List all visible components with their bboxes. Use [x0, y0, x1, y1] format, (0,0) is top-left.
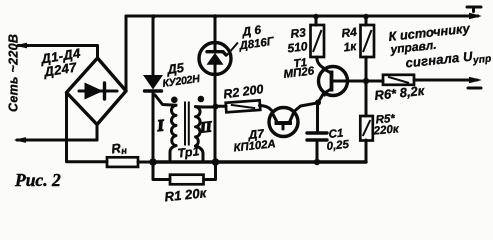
diode D6 circle: [199, 43, 231, 75]
capacitor C1 top lead: [316, 103, 319, 131]
node junction dot R2: [213, 104, 219, 110]
svg-text:КП102А: КП102А: [233, 138, 276, 154]
wire zener branch down to rail: [214, 64, 217, 162]
resistor R6: [383, 75, 414, 85]
node rail T dot: [151, 14, 155, 18]
svg-text:Рис. 2: Рис. 2: [14, 170, 61, 190]
wire R1 loop: [153, 162, 216, 180]
wire winding I bottom lead: [170, 146, 176, 161]
transistor D7 channel bar: [275, 121, 293, 125]
transformer Tr1 winding I: [171, 105, 176, 145]
node rail T dot 2: [213, 14, 217, 18]
node terminal bar bottom right: [468, 87, 481, 90]
diode D6 lead inside top: [214, 43, 217, 52]
node polarity dot winding I: [171, 97, 178, 104]
wire bridge bottom stub: [96, 125, 99, 141]
wire mains top: [18, 46, 98, 59]
wire T1 base lead: [334, 80, 363, 83]
node junction dot emitter: [315, 100, 321, 106]
resistor R3: [311, 25, 325, 57]
wire winding II top lead: [196, 105, 216, 108]
node junction dot C1 rail: [314, 159, 320, 165]
resistor R4: [361, 25, 375, 57]
wire R5 top lead: [365, 84, 368, 116]
resistor Rn: [107, 157, 138, 167]
diode inside bridge: [79, 90, 117, 93]
node mains top arrow: [15, 43, 28, 49]
resistor R5: [360, 116, 373, 141]
wire emitter to junction: [318, 94, 324, 103]
svg-text:R6* 8,2к: R6* 8,2к: [374, 83, 427, 103]
wire bottom rail: [153, 160, 366, 163]
node junction dot A: [149, 158, 157, 166]
svg-text:R4: R4: [341, 25, 358, 41]
wire R6 to output: [414, 79, 477, 82]
transistor T1 base bar: [330, 71, 334, 92]
node terminal bar top right: [467, 7, 481, 12]
svg-text:Тр1: Тр1: [177, 144, 200, 160]
wire Rn to node A: [138, 161, 153, 164]
wire thyristor gate to winding I: [155, 95, 176, 105]
wire R3 to collector: [317, 57, 324, 68]
wire R5 bottom corner: [365, 140, 368, 162]
svg-text:I: I: [156, 117, 166, 135]
svg-text:0,25: 0,25: [326, 139, 350, 153]
node polarity dot winding II: [198, 96, 205, 103]
transistor T1 emitter arrow: [322, 91, 329, 97]
svg-text:Rн: Rн: [110, 139, 128, 158]
svg-text:R1 20к: R1 20к: [164, 185, 209, 204]
svg-text:1к: 1к: [343, 39, 358, 55]
diode bridge D1-D4 diamond: [67, 58, 127, 125]
node mains bottom arrow: [14, 137, 27, 143]
node terminal arrow bottom right: [469, 77, 482, 83]
wire R2 right lead to FET: [260, 106, 273, 112]
wire thyristor anode from rail: [152, 16, 155, 76]
svg-text:Д 6: Д 6: [240, 22, 262, 39]
thyristor D5 triangle: [143, 75, 163, 90]
wire mains bottom: [17, 139, 97, 142]
node leader line D6 label: [227, 43, 238, 56]
svg-text:Сеть ~220В: Сеть ~220В: [7, 34, 21, 112]
resistor R2: [226, 100, 261, 112]
svg-text:220к: 220к: [372, 123, 400, 137]
transistor D7 gate lines: [273, 113, 294, 129]
node terminal arrow top right: [469, 13, 482, 19]
wire junction to R6: [366, 80, 383, 83]
node junction dot R3 rail: [313, 14, 319, 20]
wire D7 right lead: [294, 103, 318, 112]
wire top-rail left drop to bridge right corner: [125, 16, 128, 91]
transistor T1 emitter lead inside: [324, 89, 332, 94]
svg-text:510: 510: [287, 39, 309, 55]
wire R3 top lead: [315, 16, 318, 25]
wire top rail: [126, 15, 478, 18]
wire zener branch from rail: [214, 16, 217, 43]
svg-text:R2 200: R2 200: [222, 82, 264, 101]
svg-text:II: II: [198, 119, 213, 136]
capacitor C1 plates: [307, 133, 327, 140]
node junction dot R4 rail: [363, 14, 369, 20]
diode D6 triangle: [207, 53, 224, 65]
transistor T1 circle: [319, 67, 348, 96]
diode D6 cathode bar with zener hook: [207, 52, 226, 55]
node junction dot base: [363, 78, 369, 84]
transistor D7 circle: [269, 108, 298, 137]
wire thyristor cathode down: [152, 92, 155, 162]
svg-text:МП26: МП26: [283, 65, 315, 81]
wire R4 top lead: [365, 16, 368, 25]
wire R4 bottom lead: [365, 57, 368, 81]
wire winding II bottom lead: [196, 146, 204, 161]
wire R2 left lead: [216, 105, 227, 108]
transformer Tr1 winding II: [196, 107, 201, 146]
capacitor C1 bottom lead: [316, 142, 319, 163]
transformer core: [185, 102, 189, 146]
resistor R1: [170, 175, 204, 185]
thyristor D5 cathode bar: [145, 89, 162, 92]
node junction dot B: [212, 158, 220, 166]
transistor T1 collector lead inside: [324, 69, 332, 73]
wire bridge left corner down to bottom rail: [67, 93, 108, 162]
